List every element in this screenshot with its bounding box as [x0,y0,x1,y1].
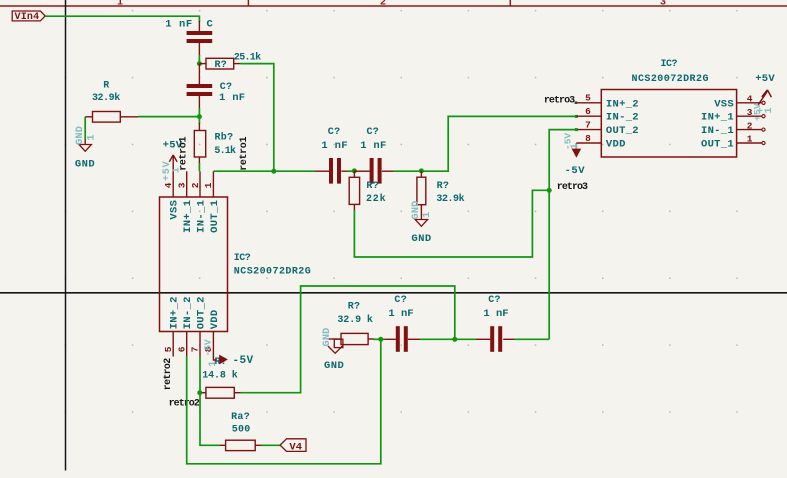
node B junction [197,114,202,119]
wire C4 to node D [393,170,421,172]
node C junction [352,168,357,173]
IC2 pin 6 IN-_2 [576,115,601,117]
svg-text:3: 3 [660,0,666,9]
svg-text:Ra?: Ra? [231,412,250,423]
wire node F up and across to 14.8k [241,286,455,393]
svg-text:OUT_2: OUT_2 [606,125,639,137]
IC2 pin 8 VDD [576,142,601,144]
graphic line horizontal (black) [0,292,787,294]
svg-text:C?: C? [488,295,501,306]
power -5V symbol at IC2 pin8 [575,143,577,149]
node D junction [419,168,424,173]
svg-text:8: 8 [585,133,591,144]
wire VIn4 to C [45,16,199,22]
wire end dot pin7 IC2 [575,128,578,131]
resistor Ra 500 [220,444,226,446]
svg-text:14.8 k: 14.8 k [202,369,238,381]
svg-text:retro1: retro1 [239,137,250,171]
svg-text:4: 4 [163,182,174,188]
IC1 pin 6 IN-_2 [186,332,188,357]
svg-text:R?: R? [366,181,379,192]
svg-text:retro1: retro1 [178,137,189,171]
svg-text:C?: C? [394,295,407,306]
power +5V symbol at IC2 pin4 [758,90,771,105]
svg-text:retro3: retro3 [544,95,575,106]
wire OUT_1 to junction [213,170,273,172]
svg-text:IN-_2: IN-_2 [606,112,639,124]
IC1 pin 7 OUT_2 [199,332,201,357]
capacitor C4 1nF (mid) [354,170,369,172]
IC2 pin 3 IN+_1 [737,115,762,117]
svg-text:+5V: +5V [755,73,775,85]
node G junction 14.8k [197,390,202,395]
svg-text:C: C [207,19,214,31]
capacitor C3 1nF (mid) [315,170,329,172]
svg-text:1 nF: 1 nF [388,308,413,320]
wire Ra to V4 [261,444,280,446]
IC1 pin 4 VSS [172,171,174,197]
IC2 pin 2 IN-_1 [737,129,762,131]
wire retro3 node down to bottom caps [548,190,550,339]
wire end dot pin6 IC2 [575,115,578,118]
svg-text:1: 1 [117,0,123,9]
svg-text:C?: C? [328,127,341,138]
svg-text:3: 3 [177,182,188,188]
global label V4 [280,439,306,452]
svg-text:1 nF: 1 nF [360,140,386,152]
wire Rb to pin2 [198,163,200,171]
IC2 pin 1 OUT_1 [737,142,762,144]
node A junction [197,61,202,66]
wire 25.1k to vertical drop [240,64,273,172]
svg-text:1 nF: 1 nF [321,140,347,152]
IC1 pin 8 VDD [212,332,214,358]
svg-text:5.1k: 5.1k [214,145,236,157]
sheet frame tick x=248 [247,0,249,7]
op-amp IC2 body [601,90,736,158]
power +5V symbol at pin 4 [169,155,177,171]
svg-text:32.9 k: 32.9 k [337,314,373,326]
graphic line vertical (black) [65,0,67,471]
wire 22k to retro3 junction [354,190,549,257]
svg-text:GND: GND [75,158,95,170]
op-amp IC1 body [160,197,228,332]
svg-text:IN-_1: IN-_1 [195,200,207,233]
wire pin6 IC1 bottom loop [187,339,381,464]
svg-text:IN+_1: IN+_1 [701,112,734,124]
svg-text:retro2: retro2 [163,358,174,390]
capacitor C5 1nF (bottom) [384,338,396,340]
wire C6 to retro3 vertical [514,338,549,340]
svg-text:-5V: -5V [233,355,254,367]
svg-text:1 nF: 1 nF [219,92,245,104]
wire C3 to node C [348,170,355,172]
svg-text:5: 5 [585,93,591,104]
sheet frame top border line [0,5,787,7]
svg-text:2: 2 [747,120,753,131]
svg-text:6: 6 [176,346,187,352]
svg-text:V4: V4 [289,442,302,454]
svg-text:1: 1 [208,361,219,367]
power GND1 symbol [84,139,86,145]
svg-text:VSS: VSS [714,98,734,110]
svg-text:1 nF: 1 nF [165,19,193,31]
resistor Rb 5.1k [198,123,200,131]
svg-text:IC?: IC? [661,59,678,70]
svg-text:IN+_2: IN+_2 [606,98,639,110]
IC2 pin 7 OUT_2 [576,129,601,131]
svg-text:OUT_1: OUT_1 [701,139,734,151]
svg-text:1 nF: 1 nF [483,308,508,320]
sheet frame tick x=510 [509,0,511,7]
svg-text:GND: GND [322,328,333,347]
capacitor C6 1nF (bottom) [476,338,491,340]
node retro3 junction [547,188,552,193]
svg-text:6: 6 [585,106,591,117]
svg-text:-5V: -5V [202,339,213,356]
svg-text:VSS: VSS [169,200,181,220]
svg-text:IN-_2: IN-_2 [182,296,194,329]
power GND2 symbol [420,211,422,220]
wire pin7 down to retro3 node [549,130,576,191]
resistor R2 25.1k [199,63,206,65]
global label VIn4 [12,11,45,21]
svg-text:GND: GND [411,233,431,245]
svg-text:R?: R? [215,60,228,71]
svg-text:GND: GND [324,360,344,372]
svg-text:IN+_1: IN+_1 [182,200,194,233]
svg-text:VDD: VDD [209,309,221,329]
svg-text:VDD: VDD [606,139,626,151]
svg-text:IN+_2: IN+_2 [169,296,181,329]
svg-text:1: 1 [203,182,214,188]
wire R to GND1 [84,117,86,139]
svg-text:OUT_2: OUT_2 [195,296,207,329]
svg-text:1: 1 [570,143,581,149]
svg-text:32.9k: 32.9k [92,92,120,104]
svg-text:-5V: -5V [565,165,586,177]
svg-text:2: 2 [380,0,386,9]
svg-text:NCS20072DR2G: NCS20072DR2G [234,266,311,277]
resistor R4 32.9k (mid) [420,171,422,177]
capacitor C [198,21,200,31]
IC1 pin 2 IN-_1 [199,171,201,197]
svg-text:GND: GND [75,126,86,145]
svg-text:32.9k: 32.9k [436,193,464,205]
junction OUT_1 net [271,169,276,174]
IC1 pin 1 OUT_1 [212,171,214,197]
svg-text:retro2: retro2 [169,398,200,409]
svg-text:IC?: IC? [234,253,251,264]
svg-text:1: 1 [421,212,433,218]
svg-text:1: 1 [85,134,97,140]
IC2 pin 5 IN+_2 [576,102,601,104]
capacitor C2 1nF [198,64,200,84]
power GND3 symbol (rotated) [334,339,343,347]
label anchor dot pin5 [575,101,578,104]
svg-text:1: 1 [764,107,775,113]
svg-text:R: R [103,80,109,91]
IC1 pin 3 IN+_1 [186,171,188,197]
power -5V symbol at IC1 pin8 [213,357,216,361]
svg-text:22k: 22k [366,193,386,205]
node E junction [378,337,383,342]
wire C2 to node B [198,108,200,117]
wire C5 to node F [420,338,455,340]
svg-text:3: 3 [747,107,753,118]
node F junction [452,337,457,342]
IC1 pin 5 IN+_2 [172,332,174,357]
wire node B to Rb [198,117,200,124]
resistor R3 22k [353,171,355,177]
svg-text:7: 7 [585,120,591,131]
wire junction to C3 [274,170,316,172]
svg-text:2: 2 [190,182,201,188]
svg-text:R?: R? [437,181,450,192]
svg-text:4: 4 [747,94,753,105]
svg-text:C?: C? [367,127,380,138]
svg-text:IN-_1: IN-_1 [701,125,734,137]
wire pin7 IC1 down to Ra [200,356,220,445]
svg-text:5: 5 [163,346,174,352]
svg-text:R?: R? [348,302,361,313]
svg-text:500: 500 [232,424,251,435]
svg-text:1: 1 [747,134,753,145]
wire to node E [374,338,381,340]
svg-text:VIn4: VIn4 [15,12,40,23]
svg-text:7: 7 [190,346,201,352]
wire R to node B [138,116,199,118]
svg-text:NCS20072DR2G: NCS20072DR2G [632,74,709,85]
IC2 pin 4 VSS [737,102,762,104]
wire C to node A [198,55,200,64]
svg-text:+: + [757,107,763,118]
svg-text:25.1k: 25.1k [234,51,261,63]
svg-text:Rb?: Rb? [215,132,234,144]
svg-text:retro3: retro3 [557,182,588,193]
wire node D to corner up [421,116,576,171]
resistor R5 14.8k body [206,387,234,398]
svg-text:OUT_1: OUT_1 [209,200,221,233]
